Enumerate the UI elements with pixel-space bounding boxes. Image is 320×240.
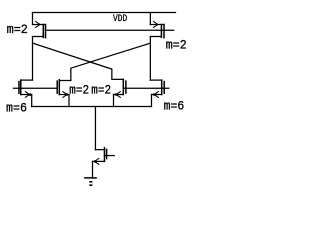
wire cross-couple diagonal B (59, 43, 150, 80)
transistor M2 gate bar (160, 25, 162, 38)
transistor M3 source lead (59, 94, 69, 96)
wire tail drop (94, 107, 96, 150)
svg-text:m=6: m=6 (6, 100, 27, 115)
transistor M6 source lead (152, 94, 162, 96)
node dot M7 source (94, 160, 97, 163)
ground dash 2 (89, 184, 92, 186)
svg-text:m=2: m=2 (7, 22, 28, 37)
node dot M4 source (115, 93, 118, 96)
wire gate line right (123, 87, 169, 89)
transistor M7 drain stub (95, 149, 104, 151)
wire M4 source drop (113, 95, 115, 107)
wire cross-couple diagonal A (33, 43, 124, 79)
ground dash 1 (89, 181, 92, 183)
svg-text:VDD: VDD (113, 13, 127, 25)
transistor M6 gate bar (163, 82, 165, 94)
transistor M1 gate bar (42, 25, 44, 38)
transistor M7 source arrow (95, 159, 99, 162)
wire M6 drain stub (150, 79, 161, 81)
transistor M6 source arrow (155, 92, 159, 95)
wire M3 source drop (68, 95, 70, 107)
transistor M1 gate lead (33, 24, 46, 26)
wire VDD drop left (32, 13, 34, 25)
transistor M2 gate arrow (153, 21, 157, 24)
transistor M6 channel bar (161, 80, 163, 94)
VDD rail (33, 12, 176, 14)
transistor M1 gate arrow (36, 21, 40, 24)
node dot M5 source (29, 93, 32, 96)
transistor M7 channel bar (103, 148, 105, 162)
svg-text:m=2: m=2 (91, 82, 111, 97)
wire ground drop (92, 161, 94, 178)
wire drain bus M1-M2 (46, 29, 174, 31)
transistor M3 source arrow (63, 92, 67, 95)
wire gate line left (13, 87, 57, 89)
transistor M5 gate bar (18, 82, 20, 94)
wire left vertical (32, 37, 34, 81)
transistor M2 channel bar (163, 25, 165, 38)
transistor M2 gate lead (150, 24, 164, 26)
wire M5 source drop (31, 95, 33, 107)
svg-text:m=2: m=2 (69, 82, 89, 97)
transistor M4 source lead (114, 94, 124, 96)
transistor M7 gate lead (104, 155, 114, 157)
transistor M4 source arrow (116, 92, 120, 95)
ground bar (85, 177, 96, 179)
node dot M6 source (153, 93, 156, 96)
transistor M7 gate bar (106, 149, 108, 158)
transistor M5 channel bar (20, 80, 22, 94)
transistor M3 gate bar (56, 81, 58, 93)
wire VDD drop right (149, 13, 151, 25)
svg-text:m=6: m=6 (164, 99, 185, 114)
wire right vertical (149, 37, 151, 81)
transistor M3 channel bar (58, 80, 60, 95)
wire M6 source drop (151, 95, 153, 107)
wire common source rail (32, 106, 152, 108)
transistor M2 source lead (150, 36, 161, 38)
transistor M1 source lead (33, 36, 44, 38)
svg-text:m=2: m=2 (166, 38, 187, 53)
transistor M5 source lead (21, 94, 32, 96)
transistor M4 channel bar (122, 79, 124, 94)
transistor M7 source lead (93, 160, 105, 162)
transistor M4 gate bar (125, 81, 127, 93)
transistor M5 source arrow (25, 92, 29, 95)
wire M5 drain stub (21, 79, 33, 81)
node dot M3 source (66, 93, 69, 96)
transistor M1 channel bar (45, 25, 47, 38)
